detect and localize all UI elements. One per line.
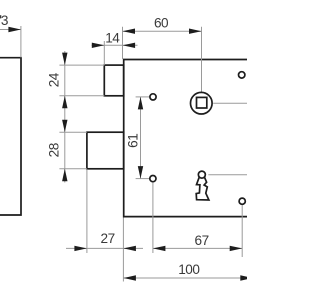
deadbolt bottom extension (59, 168, 87, 170)
bottom-left hole extension (152, 182, 154, 253)
side view case (left, cut off at image edge) (0, 58, 21, 215)
dim 61 line (140, 97, 142, 179)
latch bolt box (104, 65, 123, 96)
dim 14 line with tails (92, 44, 138, 46)
deadbolt box (87, 132, 124, 169)
dim 14 arrows (outside) (92, 43, 105, 48)
dim 61 arrows (138, 97, 143, 110)
keyhole circle (198, 171, 205, 178)
svg-text:27: 27 (101, 231, 115, 246)
dim 14 left extension (103, 41, 105, 65)
latch bottom extension (59, 95, 104, 97)
deadbolt left extension down (86, 169, 88, 253)
svg-text:61: 61 (125, 134, 140, 148)
svg-text:100: 100 (178, 262, 200, 277)
spindle leader right (213, 102, 247, 104)
dim 60 left extension (122, 27, 124, 59)
dim 100 arrows (123, 275, 135, 280)
dim 3 arrow (8, 27, 21, 32)
svg-text:28: 28 (47, 143, 62, 157)
dim 61 tick bottom (136, 178, 150, 180)
dim 3 line (top left) (0, 29, 21, 31)
keyhole stem (196, 178, 209, 201)
dim 100 line (123, 277, 247, 279)
bottom-right hole extension (241, 205, 243, 257)
dim 61 tick top (136, 96, 150, 98)
dim 67 line (153, 247, 242, 249)
screw hole bottom-left (150, 176, 156, 182)
latch top extension (59, 64, 104, 66)
dim 60 arrows (123, 29, 136, 34)
keyhole leader right (208, 174, 247, 176)
dim 67 arrows (153, 246, 166, 251)
dim 3 text (cut digit) (0, 15, 1, 18)
svg-text:3: 3 (1, 13, 8, 28)
faceplate extension down (122, 218, 124, 282)
svg-text:67: 67 (195, 233, 209, 248)
spindle hub circle (191, 92, 213, 114)
svg-text:14: 14 (105, 31, 120, 46)
dim 60 / spindle axis extension (201, 27, 203, 92)
dim 3 extension line (20, 26, 22, 58)
screw hole bottom-right (239, 198, 245, 204)
svg-text:24: 24 (47, 72, 62, 87)
dim 27 line (66, 247, 143, 249)
dim 60 line (123, 30, 202, 32)
dim 27 arrows (outside) (74, 246, 87, 251)
screw hole top-left (150, 94, 156, 100)
screw hole top-right (239, 72, 245, 78)
dim 28 arrows (outside) (62, 120, 67, 133)
main case outline (right view, cut off at right edge) (124, 60, 250, 217)
dim 24 arrows (outside) (62, 53, 67, 66)
svg-text:60: 60 (154, 15, 169, 30)
dim 24/28 vertical line (64, 51, 66, 183)
deadbolt top extension (59, 131, 87, 133)
spindle square hole (197, 97, 207, 108)
